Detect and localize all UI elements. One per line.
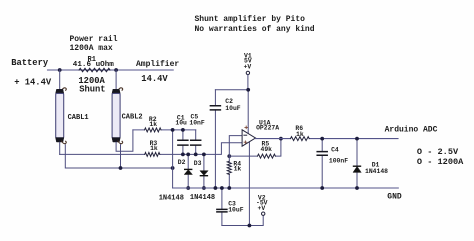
junction V1 rail [246, 88, 250, 92]
svg-text:1k: 1k [150, 145, 158, 152]
svg-text:10u: 10u [175, 119, 187, 126]
wire op-amp V- down to -5V rail [248, 143, 250, 226]
wire CABL2 top lead [115, 70, 117, 89]
resistor R2 [145, 128, 162, 132]
svg-text:CABL1: CABL1 [68, 114, 89, 122]
junction C4 bottom [320, 186, 324, 190]
junction C3 top [220, 186, 224, 190]
junction R2 line / reference vertical [171, 128, 175, 132]
diode D2 [184, 154, 192, 188]
capacitor C2 [210, 90, 220, 188]
junction rail-CABL2 [114, 68, 118, 72]
wire power rail [48, 69, 174, 71]
svg-text:CABL2: CABL2 [122, 114, 143, 122]
svg-text:1k: 1k [149, 121, 157, 128]
svg-text:+V: +V [244, 64, 252, 71]
svg-text:1N4148: 1N4148 [365, 168, 388, 175]
diode D1 [353, 139, 361, 188]
svg-text:D3: D3 [194, 160, 202, 167]
capacitor C4 [317, 139, 327, 188]
resistor R6 [291, 137, 310, 141]
svg-text:10uF: 10uF [225, 105, 241, 112]
wire ground bus [173, 187, 399, 189]
junction C5 bottom [194, 153, 198, 157]
junction R5-output [279, 137, 283, 141]
junction D2 bottom [186, 186, 190, 190]
cable CABL2 [112, 88, 123, 144]
svg-text:14.4V: 14.4V [141, 74, 168, 84]
wire CABL1 top lead [59, 70, 61, 89]
svg-text:100nF: 100nF [329, 158, 348, 165]
svg-text:Shunt amplifier by Pito: Shunt amplifier by Pito [195, 15, 306, 24]
op-amp negative input node: junction R4/R5/pin2 [227, 154, 231, 158]
svg-text:Amplifier: Amplifier [136, 60, 179, 69]
wire CABL1 shield drop [65, 145, 172, 168]
svg-text:O - 2.5V: O - 2.5V [417, 147, 459, 157]
wire CABL2 shield drop [120, 145, 122, 168]
svg-text:OP227A: OP227A [256, 125, 279, 132]
svg-text:+V: +V [258, 205, 266, 212]
wire V1 rail to C2 [215, 89, 248, 91]
resistor R1 [79, 68, 110, 71]
wire op-amp output [256, 138, 399, 140]
svg-text:Power rail: Power rail [70, 35, 118, 44]
svg-text:1200A max: 1200A max [70, 44, 113, 53]
junction C1 top [181, 128, 185, 132]
svg-text:+ 14.4V: + 14.4V [14, 78, 52, 88]
junction D2 top [186, 153, 190, 157]
junction -5V rail / op-amp V- [248, 224, 252, 228]
resistor R5 [258, 154, 276, 158]
wire reference vertical (R2 node to ground bus) [172, 130, 174, 188]
resistor R3 [145, 152, 160, 156]
svg-text:D2: D2 [178, 159, 186, 166]
svg-text:41.6 uOhm: 41.6 uOhm [73, 61, 114, 69]
wire -5V rail [222, 215, 263, 225]
wire CABL2 bottom lead jog to R2 [116, 130, 133, 151]
junction C4 top [320, 137, 324, 141]
diode D3 [200, 154, 208, 188]
junction shield-reference [171, 166, 175, 170]
wire R3 input line [60, 143, 242, 155]
svg-text:O - 1200A: O - 1200A [417, 157, 464, 167]
svg-text:49k: 49k [261, 146, 273, 153]
supply V1 terminal [244, 53, 252, 75]
svg-text:1N4148: 1N4148 [190, 194, 215, 202]
capacitor C1 [178, 130, 188, 155]
svg-text:Shunt: Shunt [79, 84, 105, 94]
svg-text:Battery: Battery [11, 58, 49, 68]
junction D3 bottom [202, 186, 206, 190]
wire R5 feedback [229, 139, 281, 157]
svg-text:C4: C4 [331, 147, 339, 154]
junction rail-CABL1 [58, 68, 62, 72]
svg-text:1N4148: 1N4148 [159, 194, 184, 202]
svg-text:No warranties of any kind: No warranties of any kind [195, 25, 315, 34]
svg-text:Arduino ADC: Arduino ADC [385, 125, 438, 134]
svg-text:10uF: 10uF [228, 207, 244, 214]
capacitor C3 [217, 188, 227, 226]
svg-text:1k: 1k [234, 166, 242, 173]
junction R4 bottom [227, 186, 231, 190]
wire CABL1 bottom lead to R3 line [59, 142, 61, 154]
junction shield CABL2 [119, 166, 123, 170]
wire inverting input [229, 136, 242, 157]
junction D3 top [202, 153, 206, 157]
op-amp U1A [242, 126, 255, 146]
svg-text:1k: 1k [296, 131, 304, 138]
cable CABL1 [56, 88, 67, 144]
junction C2 ground [214, 186, 218, 190]
junction D1 top [355, 137, 359, 141]
resistor R4 [227, 156, 231, 188]
capacitor C5 [191, 130, 201, 155]
supply V2 terminal [256, 194, 268, 215]
svg-text:10nF: 10nF [189, 119, 205, 126]
wire R2 input line [133, 129, 196, 131]
junction C1 bottom [181, 153, 185, 157]
svg-text:GND: GND [387, 192, 402, 201]
junction D1 bottom [355, 186, 359, 190]
wire V1 to op-amp V+ [247, 75, 249, 134]
